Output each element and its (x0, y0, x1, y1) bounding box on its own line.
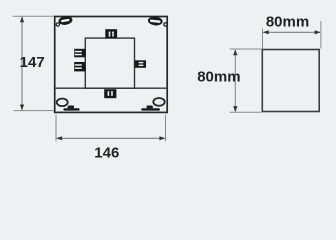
dim 146 extension right (165, 115, 167, 142)
dim 147 extension bottom (14, 110, 55, 112)
window (inner square) (85, 38, 134, 88)
dim 147 arrow down (20, 105, 24, 111)
dim 80mm vertical line (234, 50, 236, 112)
dim 146 arrow right (159, 136, 165, 140)
terminal bottom (104, 89, 116, 98)
dim 146 arrow left (56, 136, 62, 140)
dim 147 line (21, 17, 23, 110)
base flange line (55, 87, 168, 89)
screw circle top-left (56, 23, 59, 26)
dim 80mm horizontal line (263, 31, 320, 33)
dim 147 arrow up (20, 16, 24, 22)
dim 146 line (57, 137, 165, 139)
terminal left lower (74, 62, 85, 71)
dim 146 extension left (55, 115, 57, 142)
svg-text:80mm: 80mm (266, 14, 309, 31)
screw circle top-right (164, 23, 167, 26)
mounting ring bottom-left (57, 99, 68, 107)
terminal top (105, 29, 117, 38)
dim 80mm vertical arrow down (233, 106, 237, 112)
svg-text:80mm: 80mm (197, 68, 240, 85)
dim 80mm vertical extension top (230, 48, 262, 50)
foot slot bottom-left (63, 106, 79, 111)
svg-text:146: 146 (94, 144, 119, 161)
dim 80mm vertical arrow up (233, 49, 237, 55)
dim 80mm vertical extension bottom (230, 111, 262, 113)
dim 80mm horizontal extension left (262, 29, 264, 49)
side view square (262, 50, 319, 112)
svg-text:147: 147 (20, 54, 45, 71)
mounting slot top-left (58, 15, 73, 26)
terminal right (135, 60, 146, 68)
foot slot bottom-right (141, 106, 160, 111)
mounting slot top-right (147, 16, 163, 26)
dim 80mm horizontal extension right (320, 21, 322, 49)
terminal left upper (74, 49, 85, 58)
mounting ring bottom-right (153, 98, 164, 106)
body outline (front view) (55, 17, 168, 113)
dim 80mm horizontal arrow right (315, 30, 321, 34)
dim 80mm horizontal arrow left (263, 30, 269, 34)
dim 147 extension top (13, 15, 55, 17)
